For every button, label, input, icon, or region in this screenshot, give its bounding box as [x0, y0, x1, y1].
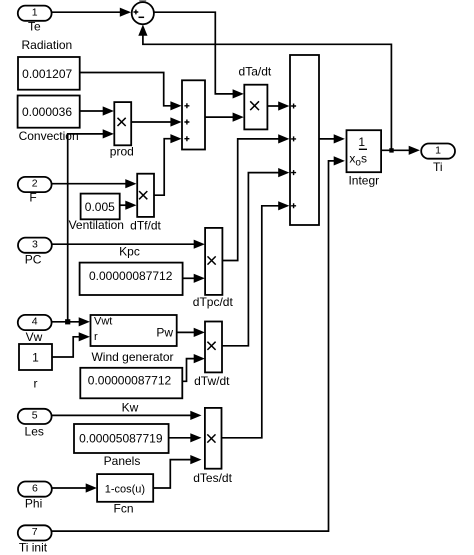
label dTw/dt — [194, 374, 230, 388]
svg-text:Ti init: Ti init — [19, 540, 48, 554]
svg-text:r: r — [34, 377, 38, 391]
wire 0.005 to dTf/dt input 2 — [120, 201, 137, 210]
svg-text:dTes/dt: dTes/dt — [193, 471, 232, 485]
wire Vw branch to prod input 2 — [68, 129, 114, 321]
subsystem block Wind generator — [91, 315, 177, 346]
inport 2 F — [18, 177, 52, 192]
wire Phi to Fcn input — [52, 483, 97, 492]
value label 0.000036 — [22, 105, 72, 119]
svg-text:Phi: Phi — [25, 497, 42, 511]
svg-text:0.00000087712: 0.00000087712 — [88, 374, 172, 388]
label dTf/dt — [130, 218, 161, 232]
dTf/dt multiply symbol — [139, 191, 147, 199]
inport 4 label Vw — [26, 330, 43, 344]
label Wind generator — [91, 350, 173, 364]
sum2 plus sign input 1 — [291, 104, 296, 109]
label dTes/dt — [193, 471, 232, 485]
constant block 1 r — [19, 344, 52, 370]
dTa/dt multiply symbol — [250, 101, 259, 110]
wire sum2 output to integrator input — [319, 134, 345, 143]
sum circle (+ -) — [132, 2, 154, 24]
svg-text:0.001207: 0.001207 — [22, 67, 72, 81]
label Ventilation — [69, 218, 124, 232]
svg-text:Fcn: Fcn — [113, 502, 133, 516]
label Kpc — [119, 244, 140, 258]
label prod — [110, 145, 134, 159]
inport 6 label Phi — [25, 497, 42, 511]
svg-text:Integr: Integr — [348, 173, 379, 187]
inport 1 Te — [18, 6, 52, 21]
svg-text:Wind generator: Wind generator — [91, 350, 173, 364]
svg-text:0.005: 0.005 — [85, 200, 115, 214]
value label 1-cos(u) — [105, 483, 145, 495]
wire dTf/dt output to sum1 input 3 — [154, 134, 182, 195]
product block dTf/dt — [137, 174, 154, 217]
svg-text:6: 6 — [32, 482, 38, 494]
function block Fcn 1-cos(u) — [97, 474, 153, 502]
wire Pw to dTw/dt input 1 — [177, 328, 205, 337]
wire dTw/dt output to sum2 input 3 — [222, 168, 289, 346]
wire Vw to Wind generator Vwt input — [52, 317, 90, 326]
svg-text:Ti: Ti — [433, 160, 443, 174]
wire dTpc/dt output to sum2 input 2 — [222, 134, 289, 260]
dTes/dt multiply symbol — [207, 434, 215, 442]
svg-text:PC: PC — [25, 253, 42, 267]
svg-text:1: 1 — [358, 135, 365, 149]
product block dTes/dt — [205, 408, 222, 469]
svg-text:0.000036: 0.000036 — [22, 105, 72, 119]
label Radiation — [22, 38, 73, 52]
svg-text:2: 2 — [32, 178, 38, 190]
svg-text:7: 7 — [32, 526, 38, 538]
svg-text:Kw: Kw — [122, 400, 139, 414]
outport 1 Ti — [421, 144, 455, 159]
sum circle plus sign — [134, 10, 139, 15]
wire feedback integrator output to sum circle — [138, 25, 391, 151]
inport 1 label Te — [28, 20, 41, 34]
integrator block Integr — [347, 130, 382, 172]
svg-text:Vw: Vw — [26, 330, 43, 344]
inport 3 PC — [18, 238, 52, 253]
label dTa/dt — [239, 65, 272, 79]
value label 0.001207 — [22, 67, 72, 81]
wire 0.001207 to sum1 input 1 — [80, 73, 182, 111]
label Kw — [122, 400, 139, 414]
svg-text:dTf/dt: dTf/dt — [130, 218, 161, 232]
wire sum1 output to dTa/dt input 2 — [205, 113, 244, 122]
dTpc/dt multiply symbol — [208, 256, 216, 264]
value label 0.005 — [85, 200, 115, 214]
svg-text:1: 1 — [32, 350, 39, 364]
constant block 0.00005087719 Panels — [74, 424, 169, 453]
label Panels — [104, 454, 141, 468]
svg-text:0.00000087712: 0.00000087712 — [89, 269, 173, 283]
svg-text:4: 4 — [32, 316, 38, 328]
product block prod — [114, 102, 131, 145]
value label 0.00000087712 Kpc — [89, 269, 173, 283]
inport 7 Ti init — [18, 525, 52, 540]
svg-text:Radiation: Radiation — [22, 38, 73, 52]
label Integr — [348, 173, 379, 187]
svg-text:0.00005087719: 0.00005087719 — [79, 432, 163, 446]
wire Ti init to integrator initial condition input — [52, 156, 345, 531]
svg-text:Pw: Pw — [156, 326, 173, 340]
svg-text:r: r — [94, 331, 98, 343]
sum2 plus sign input 2 — [291, 136, 296, 141]
integrator denominator x0s — [349, 152, 367, 169]
Wind generator pin label Pw — [156, 326, 173, 340]
svg-text:Les: Les — [25, 425, 44, 439]
inport 5 Les — [18, 409, 52, 424]
wire dTes/dt output to sum2 input 4 — [222, 201, 290, 438]
label dTpc/dt — [193, 295, 234, 309]
svg-text:5: 5 — [32, 410, 38, 422]
constant block 0.00000087712 Kw — [80, 368, 182, 399]
constant block 0.005 Ventilation — [81, 194, 120, 220]
wire sum circle to dTa/dt input 1 — [154, 12, 244, 98]
outport 1 label Ti — [433, 160, 443, 174]
label Convection — [19, 129, 79, 143]
svg-text:dTa/dt: dTa/dt — [239, 65, 272, 79]
value label 1 — [32, 350, 39, 364]
wire dTa/dt output to sum2 input 1 — [267, 101, 289, 110]
constant block 0.000036 Convection — [18, 96, 80, 128]
label Fcn — [113, 502, 133, 516]
svg-text:1: 1 — [32, 6, 38, 18]
wire prod output to sum1 input 2 — [131, 117, 181, 126]
value label 0.00005087719 — [79, 432, 163, 446]
svg-text:Panels: Panels — [104, 454, 141, 468]
svg-text:Te: Te — [28, 20, 41, 34]
inport 5 label Les — [25, 425, 44, 439]
wire Les to dTes/dt input 1 — [52, 411, 202, 420]
junction dot on integrator output — [389, 148, 393, 152]
svg-text:Convection: Convection — [19, 129, 79, 143]
label r — [34, 377, 38, 391]
wire F to dTf/dt input 1 — [52, 179, 137, 188]
sum block sum2 — [290, 55, 319, 225]
inport 4 Vw — [18, 315, 52, 330]
sum1 plus sign input 1 — [184, 103, 189, 108]
sum2 plus sign input 4 — [291, 203, 296, 208]
svg-text:1: 1 — [435, 144, 441, 156]
sum2 plus sign input 3 — [291, 170, 296, 175]
inport 2 label F — [29, 191, 36, 205]
wire PC to dTpc/dt input 1 — [52, 240, 205, 249]
sum1 plus sign input 3 — [184, 136, 189, 141]
dTw/dt multiply symbol — [207, 342, 215, 350]
prod multiply symbol — [118, 118, 126, 126]
svg-text:3: 3 — [32, 238, 38, 250]
crop artifact above sum circle — [139, 0, 146, 2]
svg-text:1-cos(u): 1-cos(u) — [105, 483, 145, 495]
product block dTpc/dt — [205, 228, 222, 295]
svg-text:Vwt: Vwt — [94, 315, 112, 327]
sum1 plus sign input 2 — [184, 120, 189, 125]
svg-text:dTw/dt: dTw/dt — [194, 374, 230, 388]
svg-text:prod: prod — [110, 145, 134, 159]
svg-text:Kpc: Kpc — [119, 244, 140, 258]
wire integrator output to outport Ti — [381, 146, 420, 155]
svg-text:dTpc/dt: dTpc/dt — [193, 295, 234, 309]
integrator fraction bar — [359, 148, 367, 150]
Wind generator pin label Vwt — [94, 315, 112, 327]
sum circle minus sign — [139, 16, 145, 18]
inport 7 label Ti init — [19, 540, 48, 554]
junction dot on Vw wire — [65, 319, 70, 324]
value label 0.00000087712 Kw — [88, 374, 172, 388]
integrator numerator 1 — [358, 135, 365, 149]
inport 6 Phi — [18, 482, 52, 497]
Wind generator pin label r — [94, 331, 98, 343]
svg-text:Ventilation: Ventilation — [69, 218, 124, 232]
product block dTw/dt — [205, 322, 222, 373]
wire Kw to dTw/dt input 2 — [182, 354, 205, 381]
wire Fcn output to dTes/dt input 3 — [153, 455, 201, 488]
product block dTa/dt — [244, 85, 267, 130]
wire 0.000036 to prod input 1 — [80, 106, 114, 115]
wire Te to sum circle — [52, 8, 131, 17]
constant block 0.00000087712 Kpc — [80, 263, 183, 295]
svg-text:F: F — [29, 191, 36, 205]
constant block 0.001207 Radiation — [18, 57, 80, 90]
wire Kpc to dTpc/dt input 2 — [183, 274, 205, 283]
inport 3 label PC — [25, 253, 42, 267]
wire r constant to Wind generator r input — [52, 332, 90, 357]
wire Panels to dTes/dt input 2 — [169, 433, 202, 442]
sum block sum1 — [182, 80, 205, 149]
